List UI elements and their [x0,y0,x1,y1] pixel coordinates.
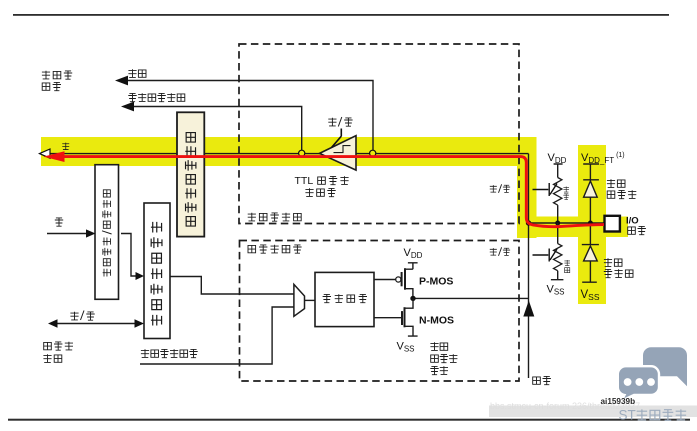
svg-text:I/O: I/O [626,216,639,227]
pull-down switch [533,249,558,262]
wire: alternate function output to mux [140,307,294,364]
wire: vertical to I/O node and analog down [528,154,530,378]
wire: main input path with left arrowhead [48,153,356,155]
label: from on-chip peripheral (zi pian shang / wai she) [43,342,73,363]
logo big bubble [643,347,687,386]
output control box [315,272,374,326]
label: to on-chip peripheral (dao pian shang / wai she) [42,71,72,91]
wire: analog to peripherals [121,81,373,151]
label: read (du) [62,143,69,150]
label: analog (mo ni) [128,69,146,78]
wire: read/write double arrow [56,323,137,325]
label: protection diode upper [607,179,636,199]
wire: mux to output control [305,299,316,301]
input driver dashed box [239,44,519,224]
svg-text:TTL: TTL [295,175,314,187]
analog up arrow [523,301,534,317]
protection diode lower [582,223,599,282]
transistor N-MOS [405,298,418,336]
input data register box (cream) [177,112,204,236]
highlight band: main read path [41,137,537,166]
top border line [13,14,669,16]
wire: set/reset reg to output data reg [121,234,137,277]
svg-text:VSS: VSS [397,341,415,354]
node dot pmos/nmos [410,296,415,301]
label: trigger (chu fa qi) [305,188,335,197]
label: analog (bottom) [533,376,551,385]
label: read/write (du/xie) [70,311,94,321]
svg-text:VDD: VDD [404,247,423,260]
junction circle: analog tap [370,150,376,156]
I/O pad square [605,216,620,232]
bottom border line [8,419,690,421]
pull-down resistor [551,223,564,280]
svg-text:P-MOS: P-MOS [419,276,453,288]
red read path highlight [60,157,604,227]
wire: I/O horizontal [529,222,605,224]
pull-up resistor [554,164,563,223]
pmos VDD rail [408,263,418,269]
bit set/reset register box [95,165,119,300]
junction dot pull-up [555,221,560,226]
junction circle: alt func input tap [299,150,305,156]
label: input driver [248,213,302,222]
protection diode upper [583,164,599,223]
wire: write arrow into set/reset register [47,233,87,235]
svg-text:ai15939b: ai15939b [601,397,636,406]
watermark gray bar [489,406,697,418]
junction dot I/O node [526,220,531,225]
label: alternate function output [141,349,198,358]
wire: schmitt output continues (under box) [356,153,529,155]
junction dot diode column [588,221,593,226]
label: pull-up (la shang) tiny vertical [563,186,569,199]
wire: alternate function input [127,107,302,151]
label: on/off (right 2) [490,247,510,256]
label: pull-down (la xia) tiny vertical [564,260,570,273]
wire: output data reg to mux [170,277,294,295]
TTL schmitt trigger triangle [320,136,357,171]
output data register box [144,203,170,339]
label: write (xie) [55,218,63,227]
highlight band: protection diode column [578,145,606,304]
logo small bubble [618,366,659,401]
wire: pmos/nmos output to pad line [413,297,529,299]
label: push-pull / open-drain / disabled [430,342,457,375]
svg-text:VDD: VDD [548,152,567,165]
schmitt on/off switch [332,129,342,148]
svg-text:N-MOS: N-MOS [419,315,454,327]
label: on/off (kai/guan) top [328,117,352,127]
highlight band: I/O pin wire [517,217,628,238]
label: alternate function input (fu yong gong neng shu ru) [128,93,185,102]
transistor P-MOS [405,269,413,298]
svg-text:VSS: VSS [547,284,565,297]
label: output driver [248,245,302,254]
label: on/off (right 1) [490,184,510,193]
svg-text:ST: ST [619,408,636,423]
mux (output selector trapezoid) [294,284,305,316]
highlight band: vertical right [517,150,537,238]
output driver dashed box [240,241,520,382]
pull-up switch [533,183,558,196]
label: protection diode lower [604,258,633,278]
